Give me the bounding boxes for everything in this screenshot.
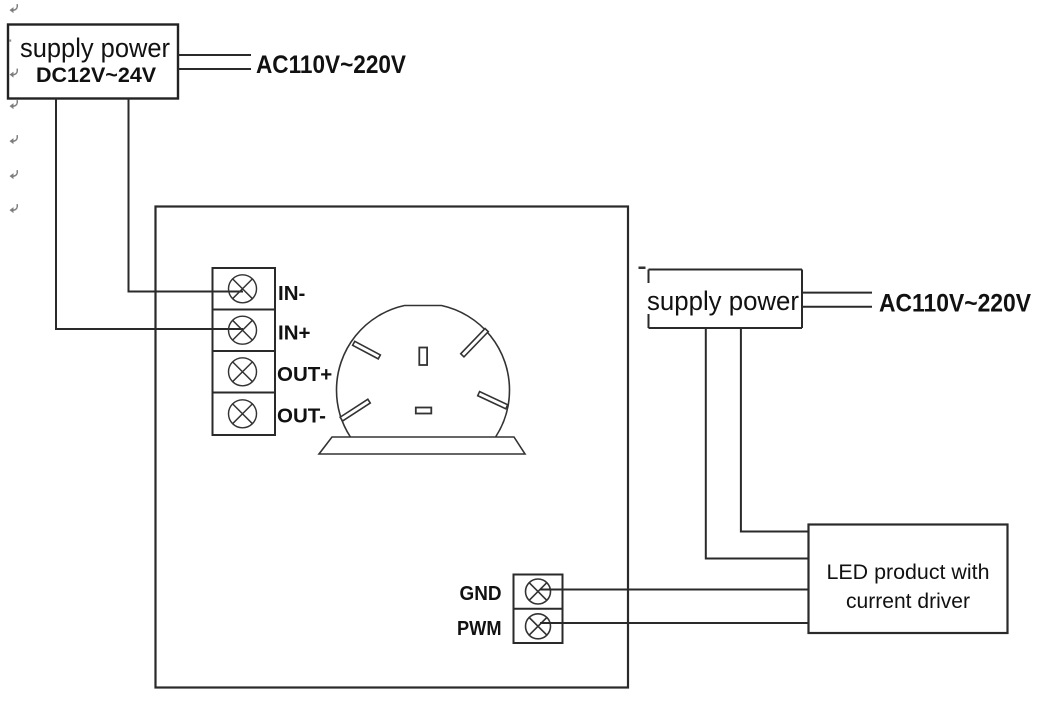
- svg-text:supply power: supply power: [20, 33, 170, 63]
- svg-text:GND: GND: [460, 582, 502, 605]
- svg-text:current driver: current driver: [846, 589, 970, 613]
- svg-text:PWM: PWM: [457, 617, 502, 640]
- svg-text:DC12V~24V: DC12V~24V: [36, 63, 157, 87]
- svg-text:OUT+: OUT+: [277, 363, 332, 386]
- svg-text:AC110V~220V: AC110V~220V: [879, 290, 1031, 318]
- svg-text:IN+: IN+: [278, 322, 311, 345]
- svg-text:OUT-: OUT-: [277, 405, 326, 428]
- svg-text:supply power: supply power: [647, 286, 799, 316]
- svg-text:AC110V~220V: AC110V~220V: [256, 51, 406, 79]
- svg-text:IN-: IN-: [278, 282, 305, 305]
- svg-text:LED product with: LED product with: [827, 560, 990, 584]
